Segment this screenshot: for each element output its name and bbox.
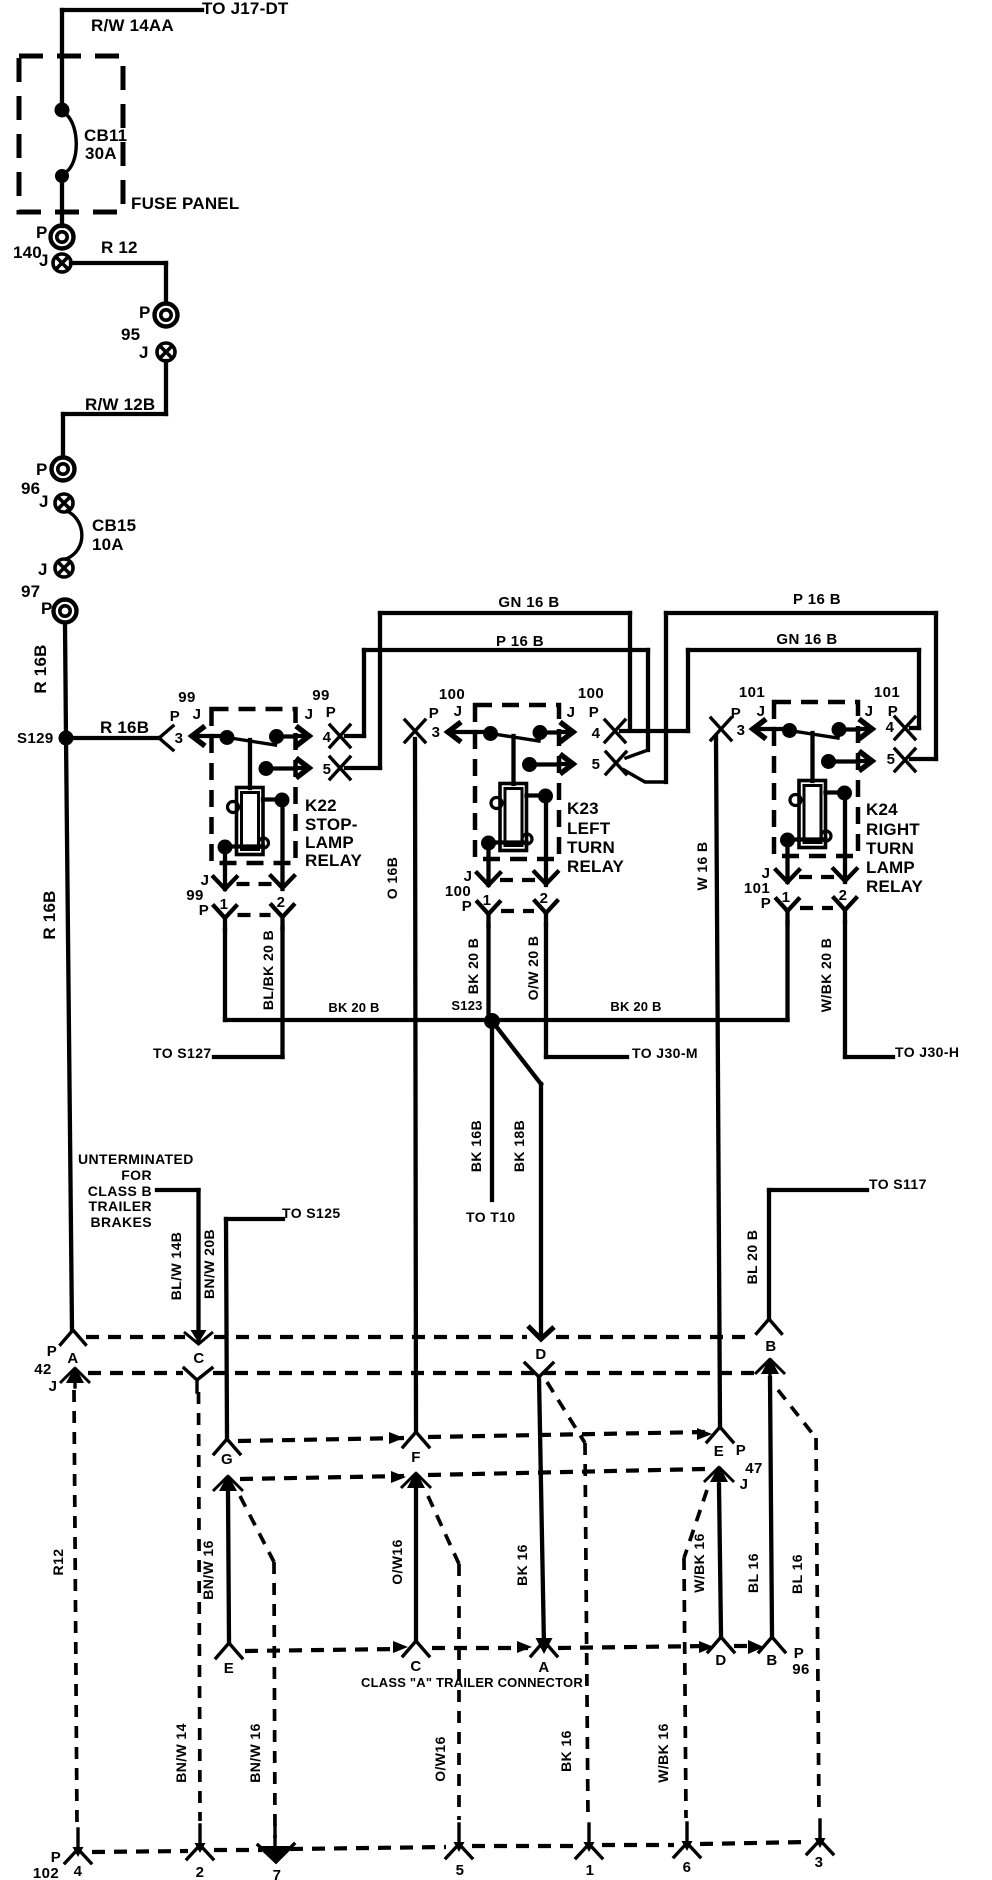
svg-text:42: 42 — [34, 1361, 52, 1378]
svg-text:96: 96 — [792, 1661, 810, 1678]
svg-text:P 16 B: P 16 B — [793, 591, 841, 608]
svg-text:W/BK 16: W/BK 16 — [691, 1533, 707, 1593]
svg-text:J: J — [305, 706, 314, 723]
svg-text:F: F — [411, 1449, 421, 1466]
svg-text:O/W16: O/W16 — [389, 1539, 405, 1585]
svg-text:1: 1 — [782, 889, 791, 906]
svg-text:CB11: CB11 — [84, 126, 127, 145]
svg-text:BK 16: BK 16 — [558, 1730, 574, 1772]
svg-text:P: P — [170, 708, 180, 725]
svg-text:R/W 12B: R/W 12B — [85, 395, 155, 414]
svg-text:FUSE PANEL: FUSE PANEL — [131, 194, 239, 213]
svg-text:R 12: R 12 — [101, 238, 138, 257]
svg-text:BN/W 16: BN/W 16 — [200, 1540, 216, 1600]
svg-text:BK 16: BK 16 — [514, 1544, 530, 1586]
svg-text:A: A — [67, 1350, 78, 1367]
svg-text:101: 101 — [874, 684, 900, 701]
svg-text:BL/W 14B: BL/W 14B — [168, 1232, 184, 1301]
svg-text:P: P — [589, 704, 599, 721]
svg-text:R/W 14AA: R/W 14AA — [91, 16, 174, 35]
svg-text:J: J — [38, 560, 48, 579]
svg-text:S129: S129 — [17, 730, 54, 747]
svg-text:BK 20 B: BK 20 B — [465, 938, 481, 994]
svg-text:TO J17-DT: TO J17-DT — [202, 0, 289, 18]
svg-text:5: 5 — [323, 761, 332, 778]
svg-text:BN/W 20B: BN/W 20B — [201, 1229, 217, 1299]
svg-text:1: 1 — [483, 892, 492, 909]
svg-text:P: P — [41, 599, 53, 618]
svg-text:P: P — [731, 705, 741, 722]
svg-text:BL 20 B: BL 20 B — [744, 1230, 760, 1285]
svg-text:P: P — [736, 1442, 746, 1459]
svg-text:3: 3 — [815, 1854, 824, 1871]
svg-text:K22: K22 — [305, 796, 337, 815]
svg-text:RELAY: RELAY — [305, 851, 363, 870]
svg-text:W 16 B: W 16 B — [694, 841, 710, 890]
svg-text:FOR: FOR — [121, 1167, 152, 1183]
svg-text:TO T10: TO T10 — [466, 1209, 516, 1225]
svg-text:E: E — [714, 1443, 724, 1460]
svg-text:BK 16B: BK 16B — [468, 1120, 484, 1172]
svg-text:47: 47 — [745, 1460, 763, 1477]
svg-text:P: P — [36, 460, 48, 479]
svg-text:C: C — [410, 1658, 421, 1675]
svg-text:W/BK 20 B: W/BK 20 B — [818, 938, 834, 1012]
svg-text:3: 3 — [175, 730, 184, 747]
svg-text:CLASS "A" TRAILER CONNECTOR: CLASS "A" TRAILER CONNECTOR — [361, 1675, 583, 1690]
svg-text:BL 16: BL 16 — [745, 1553, 761, 1593]
svg-text:J: J — [49, 1378, 58, 1395]
svg-text:99: 99 — [312, 687, 330, 704]
svg-text:140: 140 — [13, 243, 42, 262]
svg-text:P: P — [761, 895, 771, 912]
svg-text:J: J — [39, 492, 49, 511]
svg-text:3: 3 — [737, 722, 746, 739]
svg-text:R 16B: R 16B — [40, 890, 59, 939]
svg-text:E: E — [224, 1660, 234, 1677]
svg-text:O/W16: O/W16 — [432, 1736, 448, 1782]
svg-text:102: 102 — [33, 1865, 59, 1880]
svg-text:W/BK 16: W/BK 16 — [655, 1723, 671, 1783]
svg-text:BL 16: BL 16 — [789, 1554, 805, 1594]
svg-text:100: 100 — [439, 686, 465, 703]
svg-text:R 16B: R 16B — [100, 718, 149, 737]
svg-text:LAMP: LAMP — [866, 858, 915, 877]
svg-text:B: B — [765, 1338, 776, 1355]
svg-text:G: G — [221, 1451, 233, 1468]
svg-text:BL/BK 20 B: BL/BK 20 B — [260, 930, 276, 1010]
svg-text:GN 16 B: GN 16 B — [776, 631, 837, 648]
svg-text:P: P — [139, 303, 151, 322]
svg-text:J: J — [139, 343, 149, 362]
svg-text:CLASS B: CLASS B — [88, 1183, 152, 1199]
svg-text:4: 4 — [323, 729, 332, 746]
svg-text:2: 2 — [196, 1864, 205, 1880]
svg-text:S123: S123 — [451, 998, 482, 1013]
svg-text:99: 99 — [178, 689, 196, 706]
svg-text:P: P — [36, 223, 48, 242]
svg-text:P: P — [51, 1849, 61, 1866]
svg-text:3: 3 — [432, 724, 441, 741]
svg-text:10A: 10A — [92, 535, 124, 554]
svg-text:P: P — [462, 898, 472, 915]
svg-text:97: 97 — [21, 582, 40, 601]
svg-text:100: 100 — [578, 685, 604, 702]
svg-text:2: 2 — [277, 894, 286, 911]
svg-text:J: J — [454, 703, 463, 720]
svg-text:96: 96 — [21, 479, 40, 498]
svg-text:R12: R12 — [50, 1549, 66, 1576]
svg-text:95: 95 — [121, 325, 140, 344]
svg-text:P: P — [47, 1343, 57, 1360]
svg-text:BK 20 B: BK 20 B — [610, 999, 661, 1014]
svg-text:D: D — [715, 1652, 726, 1669]
svg-text:5: 5 — [456, 1862, 465, 1879]
svg-text:1: 1 — [220, 896, 229, 913]
svg-text:LAMP: LAMP — [305, 833, 354, 852]
svg-text:B: B — [766, 1652, 777, 1669]
svg-text:7: 7 — [273, 1867, 282, 1880]
svg-text:LEFT: LEFT — [567, 819, 611, 838]
svg-text:2: 2 — [839, 887, 848, 904]
svg-text:UNTERMINATED: UNTERMINATED — [78, 1151, 194, 1167]
svg-text:TRAILER: TRAILER — [89, 1198, 152, 1214]
svg-text:RELAY: RELAY — [567, 857, 625, 876]
svg-text:GN 16 B: GN 16 B — [498, 594, 559, 611]
svg-text:TURN: TURN — [866, 839, 914, 858]
svg-text:BK 18B: BK 18B — [511, 1120, 527, 1172]
svg-text:RELAY: RELAY — [866, 877, 924, 896]
svg-text:TO S125: TO S125 — [282, 1205, 341, 1221]
svg-text:4: 4 — [74, 1863, 83, 1880]
svg-text:RIGHT: RIGHT — [866, 820, 920, 839]
svg-text:P 16 B: P 16 B — [496, 633, 544, 650]
svg-text:O 16B: O 16B — [384, 857, 400, 899]
svg-text:J: J — [39, 251, 49, 270]
svg-text:A: A — [538, 1659, 549, 1676]
svg-text:1: 1 — [586, 1862, 595, 1879]
svg-text:J: J — [740, 1476, 749, 1493]
svg-text:P: P — [429, 705, 439, 722]
svg-text:TO S127: TO S127 — [153, 1045, 212, 1061]
svg-text:C: C — [193, 1350, 204, 1367]
svg-text:TO J30-M: TO J30-M — [632, 1045, 698, 1061]
svg-text:2: 2 — [540, 890, 549, 907]
svg-text:R 16B: R 16B — [31, 644, 50, 693]
svg-text:TO J30-H: TO J30-H — [895, 1044, 959, 1060]
svg-text:P: P — [199, 902, 209, 919]
svg-text:J: J — [865, 703, 874, 720]
svg-text:4: 4 — [886, 719, 895, 736]
svg-text:5: 5 — [887, 751, 896, 768]
svg-text:D: D — [535, 1346, 546, 1363]
svg-text:30A: 30A — [85, 144, 117, 163]
svg-text:STOP-: STOP- — [305, 815, 358, 834]
svg-text:4: 4 — [592, 725, 601, 742]
svg-text:BK 20 B: BK 20 B — [328, 1000, 379, 1015]
svg-text:BN/W 16: BN/W 16 — [247, 1723, 263, 1783]
svg-text:O/W 20 B: O/W 20 B — [525, 936, 541, 1001]
svg-text:K23: K23 — [567, 799, 599, 818]
svg-text:J: J — [193, 706, 202, 723]
svg-text:P: P — [326, 704, 336, 721]
svg-text:CB15: CB15 — [92, 516, 136, 535]
svg-text:TURN: TURN — [567, 838, 615, 857]
svg-text:P: P — [794, 1645, 804, 1662]
svg-text:6: 6 — [683, 1859, 692, 1876]
svg-text:K24: K24 — [866, 800, 898, 819]
svg-text:5: 5 — [592, 756, 601, 773]
svg-text:BN/W 14: BN/W 14 — [173, 1723, 189, 1783]
svg-text:J: J — [567, 704, 576, 721]
svg-text:TO S117: TO S117 — [869, 1176, 927, 1192]
svg-text:BRAKES: BRAKES — [90, 1214, 152, 1230]
svg-text:101: 101 — [739, 684, 765, 701]
